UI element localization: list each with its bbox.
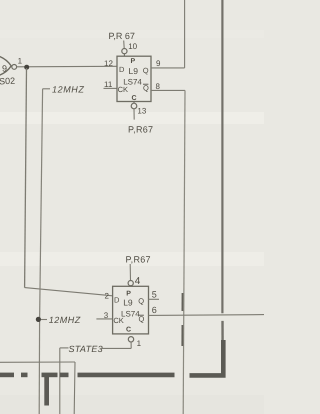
- clear bubble pin 1: [128, 337, 133, 342]
- dashed boundary emphasis on vertical wire: [181, 293, 183, 311]
- wire from clear bubble down: [133, 109, 135, 120]
- svg-text:Q: Q: [139, 315, 145, 324]
- svg-text:C: C: [132, 95, 137, 102]
- sheet boundary line right (x=222): [221, 0, 223, 313]
- svg-text:Q: Q: [138, 296, 144, 305]
- wire: 12MHZ vertical down: [40, 89, 43, 320]
- svg-text:12: 12: [104, 59, 113, 68]
- svg-text:STATE3: STATE3: [69, 344, 103, 354]
- flip-flop U L9 box: [117, 56, 151, 101]
- svg-text:10: 10: [128, 42, 137, 51]
- svg-text:3: 3: [104, 311, 109, 320]
- svg-text:11: 11: [104, 80, 113, 89]
- svg-text:CK: CK: [113, 316, 123, 325]
- wire: vertical from junction down left side: [25, 68, 27, 288]
- clear bubble pin 13: [133, 102, 135, 104]
- svg-text:CK: CK: [118, 85, 128, 94]
- wire to CK pin 11: [104, 87, 118, 89]
- 12MHZ lower label tick: [41, 319, 47, 321]
- svg-text:P,R 67: P,R 67: [109, 31, 135, 41]
- wire STATE3 to pin 1: [101, 347, 132, 349]
- svg-text:1: 1: [18, 57, 23, 66]
- svg-text:P: P: [126, 291, 131, 298]
- wire gate output to pin 12 of U-L9 top: [17, 65, 117, 68]
- svg-text:Q: Q: [143, 66, 149, 75]
- preset bubble pin 4: [128, 281, 133, 286]
- preset bubble pin 10: [122, 49, 127, 54]
- wire down from pin 8 to sheet bottom: [183, 90, 185, 414]
- wire up to sheet edge: [184, 0, 186, 68]
- svg-text:6: 6: [152, 305, 157, 315]
- thick vertical T bar: [44, 374, 49, 406]
- svg-text:D: D: [119, 65, 125, 74]
- wire Qbar pin 6 to right sheet edge: [149, 314, 265, 317]
- svg-text:P,R67: P,R67: [126, 255, 151, 265]
- svg-text:13: 13: [137, 107, 146, 116]
- wire from P,R67 down to preset bubble: [123, 41, 126, 49]
- junction node dot: [24, 65, 29, 70]
- svg-text:1: 1: [137, 339, 142, 348]
- svg-text:12MHZ: 12MHZ: [52, 85, 85, 95]
- pin 5 stub: [149, 298, 160, 300]
- thick corner bottom right: [190, 340, 224, 375]
- svg-text:L9: L9: [129, 66, 139, 76]
- thin corner line bottom left: [0, 361, 75, 363]
- svg-text:5: 5: [152, 290, 157, 300]
- NOR gate 'S02 (partial, left edge): [0, 51, 11, 80]
- wire from P,R67 down to preset bubble: [129, 264, 131, 281]
- wire Qbar pin 8: [151, 89, 185, 91]
- junction dot 12MHZ lower: [36, 317, 41, 322]
- svg-text:C: C: [126, 327, 131, 334]
- svg-text:L9: L9: [123, 298, 133, 308]
- svg-text:S02: S02: [0, 76, 15, 87]
- svg-text:Q: Q: [143, 84, 149, 93]
- 12MHZ upper label tick: [43, 88, 50, 90]
- wire Q pin 9 to vertical going up: [151, 67, 185, 69]
- svg-text:9: 9: [156, 59, 161, 68]
- svg-text:8: 8: [156, 82, 161, 91]
- svg-text:P,R67: P,R67: [128, 125, 153, 135]
- flip-flop U L9 box (lower): [113, 286, 149, 334]
- wire to CK pin 3 of lower flip-flop: [96, 318, 112, 320]
- svg-text:4: 4: [135, 276, 141, 287]
- svg-text:2: 2: [105, 292, 110, 301]
- svg-text:P: P: [131, 58, 136, 65]
- STATE3 corner wire: [60, 347, 69, 349]
- thick dashed bar segments (bottom): [0, 373, 175, 378]
- gate output bubble: [12, 65, 17, 70]
- svg-text:12MHZ: 12MHZ: [49, 315, 81, 325]
- svg-text:D: D: [114, 295, 120, 304]
- wire: horizontal to pin 2 of lower flip-flop: [25, 288, 113, 296]
- wire from clear bubble down to STATE3 line: [130, 342, 132, 348]
- svg-text:LS74: LS74: [121, 310, 140, 319]
- svg-text:9: 9: [2, 64, 7, 74]
